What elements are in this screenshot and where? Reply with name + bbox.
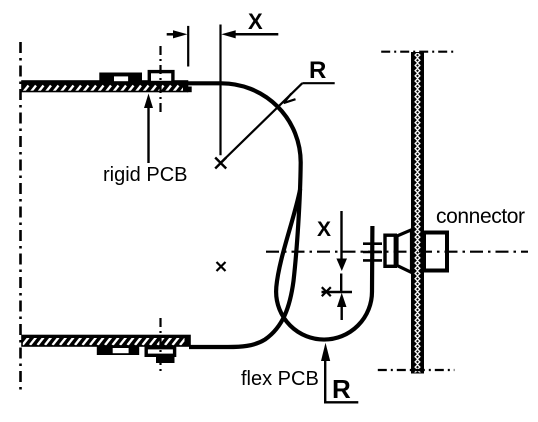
connector pin ticks	[363, 244, 382, 261]
wall top dash-dot	[381, 51, 454, 53]
flex PCB fold arm: branch -> U loop -> up to connector	[276, 189, 372, 340]
component C3 under bottom bar	[97, 346, 139, 355]
rigid PCB pointer arrow	[144, 94, 153, 164]
x mark: center of top R bend	[215, 158, 226, 169]
svg-text:connector: connector	[436, 205, 525, 228]
svg-text:rigid PCB: rigid PCB	[103, 164, 187, 186]
svg-text:flex PCB: flex PCB	[241, 368, 319, 390]
connector front housing	[385, 235, 395, 266]
svg-text:R: R	[309, 57, 326, 84]
svg-text:X: X	[317, 218, 331, 241]
component C2 on top bar (outlined box)	[149, 72, 173, 83]
x mark: center of bottom U bend	[322, 287, 331, 296]
bottom R dimension (points at U bend)	[321, 343, 358, 403]
left vertical centerline (dash-dot)	[19, 42, 22, 391]
end cap of top bar	[183, 81, 188, 92]
dash-dot vertical through bottom components	[159, 318, 161, 374]
dash-dot vertical through top components	[159, 46, 161, 115]
radius leader line R (top)	[221, 83, 335, 162]
step under right end of top bar	[187, 87, 192, 93]
end cap of bottom bar	[185, 336, 191, 347]
extension line 1	[187, 26, 189, 67]
connector body behind wall	[424, 233, 447, 271]
flex PCB outer run: top bar -> R bend -> S-curve -> bottom bar	[187, 83, 301, 347]
connector flared body	[397, 230, 412, 273]
component C1 on top bar	[99, 73, 142, 83]
left tail + arrow	[167, 33, 180, 36]
x mark: center of lower S bend	[217, 262, 226, 271]
rigid PCB top bar (hatched)	[22, 81, 192, 92]
bulkhead wall (hatched panel)	[412, 53, 424, 374]
extension line 2 (down to R center)	[219, 25, 221, 156]
right tail + arrow	[228, 33, 278, 36]
svg-text:R: R	[332, 374, 351, 404]
top X dimension	[167, 25, 279, 156]
rigid PCB bottom bar (hatched)	[22, 336, 191, 347]
horizontal centerline (dash-dot)	[266, 251, 528, 253]
middle X dimension	[322, 211, 353, 320]
wall bottom dash-dot	[378, 369, 455, 371]
component C4 under bottom bar (outlined box with tab)	[146, 348, 174, 363]
svg-text:X: X	[248, 9, 263, 34]
